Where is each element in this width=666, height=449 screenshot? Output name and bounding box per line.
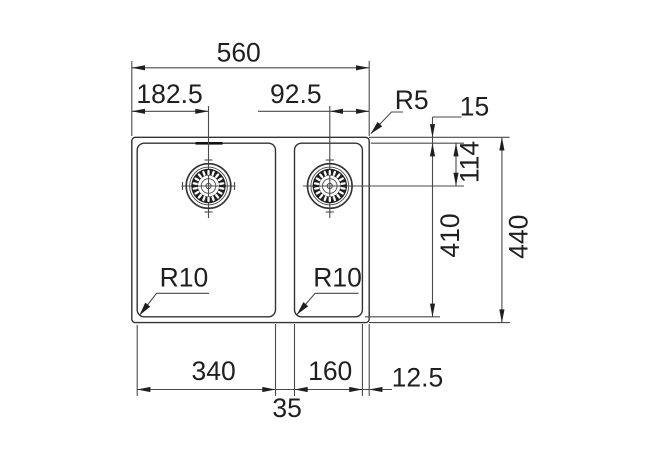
svg-text:92.5: 92.5 <box>270 79 322 109</box>
dimension 114 vertical line <box>455 143 457 186</box>
R10 leader right bowl <box>297 293 359 314</box>
dimension 440 vertical line <box>501 137 503 322</box>
overflow tick mark on left bowl top edge <box>196 142 223 145</box>
extension line above rim left <box>131 61 133 136</box>
svg-text:440: 440 <box>504 215 534 259</box>
svg-text:12.5: 12.5 <box>392 362 444 392</box>
svg-text:R10: R10 <box>160 262 209 292</box>
right drain strainer <box>308 164 353 209</box>
bottom dimension line <box>137 389 392 391</box>
left drain centerline vertical <box>208 106 210 218</box>
left drain centermark ticks <box>205 159 213 161</box>
dimension 182.5 line <box>132 110 209 112</box>
svg-text:114: 114 <box>455 141 485 183</box>
svg-text:182.5: 182.5 <box>136 79 202 109</box>
svg-text:35: 35 <box>272 393 301 423</box>
svg-text:R5: R5 <box>395 85 429 115</box>
bottom extension lines <box>136 325 138 396</box>
bowl bottom extension line right <box>365 316 440 318</box>
svg-text:340: 340 <box>191 356 235 386</box>
svg-text:410: 410 <box>435 213 465 257</box>
dimension 560 line <box>132 67 369 69</box>
left bowl outline <box>137 143 275 317</box>
dimension 92.5 line <box>258 110 369 112</box>
right drain centerline vertical <box>329 106 331 218</box>
svg-text:15: 15 <box>460 92 489 122</box>
right drain crosshair horizontal extended to 114 dimension <box>303 185 464 187</box>
svg-text:560: 560 <box>217 37 261 67</box>
extension line above rim right <box>368 61 370 136</box>
dimension 15 shoulder <box>433 116 462 118</box>
rim top extension line right <box>369 136 510 138</box>
svg-text:R10: R10 <box>313 262 362 292</box>
bowl top extension line right <box>371 142 464 144</box>
left drain strainer <box>186 164 231 209</box>
R5 leader <box>371 112 403 134</box>
R10 leader left bowl <box>140 293 210 315</box>
svg-text:160: 160 <box>308 356 352 386</box>
rim bottom extension line right <box>369 322 510 324</box>
dimension 15 and 410 shared vertical line <box>432 117 434 317</box>
right drain centermark ticks <box>326 159 334 161</box>
left drain crosshair horizontal <box>182 185 236 187</box>
sink outer rim outline <box>132 137 369 322</box>
right bowl outline <box>295 143 363 317</box>
